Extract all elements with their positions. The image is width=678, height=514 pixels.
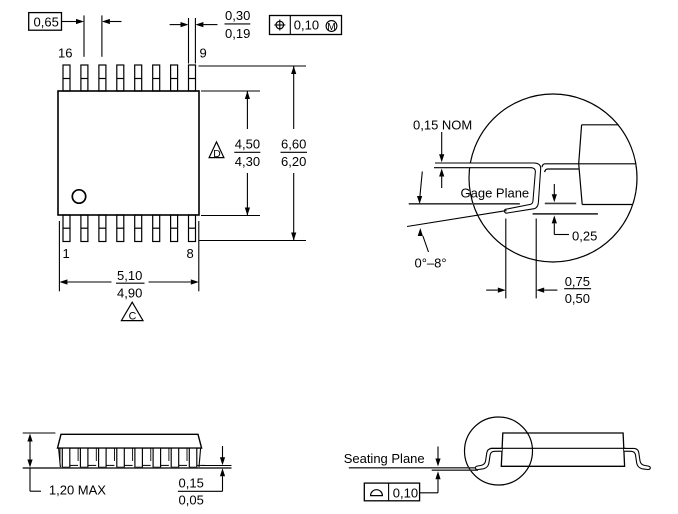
dimension 6,60/6,20 overall width — [199, 66, 308, 241]
dimension 0,30/0,19 lead width — [170, 8, 251, 64]
dimension 0,15/0,05 standoff — [178, 446, 225, 508]
feature control frame: position 0,10 M — [270, 16, 342, 35]
pin 1 index circle — [72, 190, 85, 203]
pin 13 top lead — [117, 65, 124, 91]
svg-text:Seating Plane: Seating Plane — [344, 451, 425, 466]
pin 5 bottom lead — [135, 215, 142, 242]
svg-text:0°–8°: 0°–8° — [415, 256, 447, 271]
svg-text:M: M — [327, 22, 336, 33]
svg-text:0,30: 0,30 — [225, 8, 250, 23]
svg-text:0,25: 0,25 — [572, 229, 597, 244]
dimension 5,10/4,90 body length — [59, 221, 198, 300]
datum triangle D — [209, 142, 224, 160]
seating plane line in detail — [533, 213, 598, 215]
side view body — [58, 434, 202, 448]
svg-text:0,10: 0,10 — [294, 18, 319, 33]
pin 12 top lead — [135, 65, 142, 91]
dimension 0,75/0,50 foot length — [486, 219, 591, 307]
dimension 0,65 pitch — [29, 13, 122, 57]
dimension 4,50/4,30 body width — [201, 91, 260, 216]
magnified lead — [434, 163, 541, 213]
pin 14 top lead — [99, 65, 106, 91]
svg-text:8: 8 — [187, 246, 194, 261]
pin 10 top lead — [171, 65, 178, 91]
svg-text:1,20 MAX: 1,20 MAX — [49, 482, 106, 497]
svg-text:0,15 NOM: 0,15 NOM — [413, 118, 472, 133]
svg-text:0,50: 0,50 — [565, 291, 590, 306]
svg-text:D: D — [213, 149, 220, 160]
seating plane lines bottom right — [349, 468, 478, 470]
pin 9 top lead — [189, 65, 196, 91]
body edge in detail view — [579, 125, 633, 205]
pin 7 bottom lead — [171, 215, 178, 242]
end view right lead — [624, 448, 650, 469]
svg-text:0,19: 0,19 — [225, 26, 250, 41]
dimension 1,20 MAX — [23, 433, 107, 497]
side view lead 4 — [115, 448, 133, 467]
Seating Plane label — [344, 451, 425, 466]
svg-text:6,60: 6,60 — [281, 137, 306, 152]
seating plane arrows — [420, 447, 441, 493]
feature control frame: profile 0,10 — [364, 483, 419, 501]
pin 11 top lead — [153, 65, 160, 91]
pin number labels — [58, 46, 207, 262]
end view left lead — [475, 448, 502, 469]
side view lead 3 — [96, 448, 114, 467]
side view lead 7 — [169, 448, 187, 467]
dimension 0-8 degrees — [415, 228, 447, 271]
svg-text:5,10: 5,10 — [117, 268, 142, 283]
dimension 0,15 NOM lead thickness — [413, 118, 472, 188]
pin 2 bottom lead — [81, 215, 88, 242]
seating detail circle — [465, 417, 533, 485]
pin 3 bottom lead — [99, 215, 106, 242]
gage plane pointer arrow — [417, 172, 422, 205]
0-8 degree construction line — [407, 211, 507, 227]
svg-text:6,20: 6,20 — [281, 154, 306, 169]
pin 1 bottom lead — [63, 215, 70, 242]
gage plane line — [409, 202, 577, 204]
svg-text:9: 9 — [200, 46, 207, 61]
svg-text:0,75: 0,75 — [565, 274, 590, 289]
side view lead 5 — [133, 448, 151, 467]
pin 6 bottom lead — [153, 215, 160, 242]
svg-text:Gage Plane: Gage Plane — [461, 186, 530, 201]
svg-text:4,50: 4,50 — [235, 137, 260, 152]
datum triangle C — [121, 302, 143, 322]
side view end edges — [59, 448, 201, 467]
svg-text:16: 16 — [58, 46, 72, 61]
package body top view — [58, 91, 199, 215]
svg-text:0,15: 0,15 — [179, 476, 204, 491]
dimension 0,25 — [552, 184, 598, 244]
end view body — [491, 433, 626, 466]
Gage Plane label — [461, 186, 530, 201]
svg-text:0,05: 0,05 — [179, 493, 204, 508]
side view lead 1 — [60, 448, 78, 467]
pin 15 top lead — [81, 65, 88, 91]
pin 4 bottom lead — [117, 215, 124, 242]
seating plane line under side view — [23, 466, 232, 469]
svg-text:C: C — [129, 310, 137, 322]
pin 8 bottom lead — [189, 215, 196, 242]
side view lead 2 — [78, 448, 96, 467]
side view lead 6 — [151, 448, 169, 467]
detail view circle — [469, 94, 637, 262]
svg-text:0,65: 0,65 — [34, 15, 59, 30]
svg-text:0,10: 0,10 — [393, 485, 418, 500]
svg-text:1: 1 — [63, 246, 70, 261]
pin 16 top lead — [63, 65, 70, 91]
svg-text:4,30: 4,30 — [235, 154, 260, 169]
svg-text:4,90: 4,90 — [117, 285, 142, 300]
side view lead 8 — [187, 448, 205, 467]
lead root lines into body — [542, 164, 636, 172]
